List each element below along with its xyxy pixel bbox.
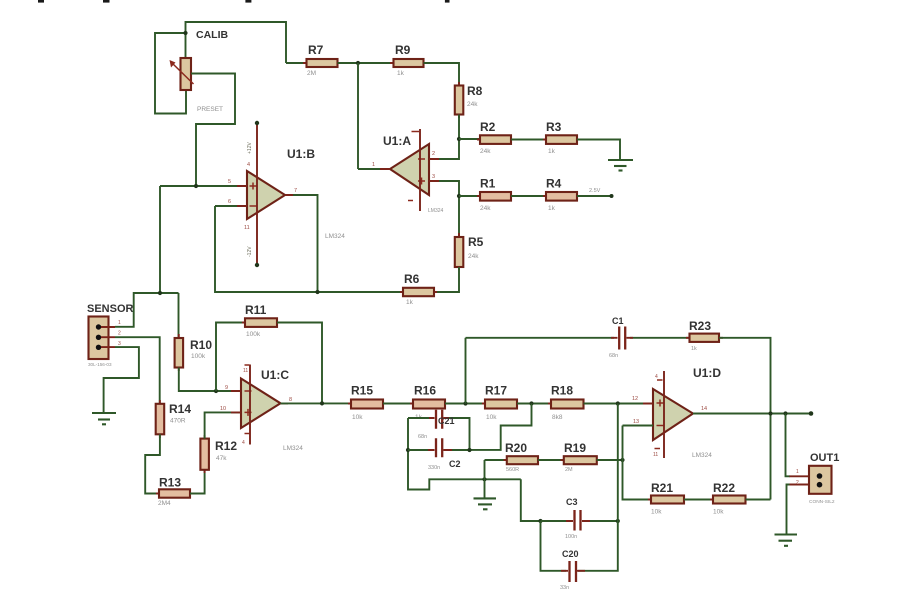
connector OUT1 pin dots bbox=[817, 473, 823, 479]
svg-text:11: 11 bbox=[243, 368, 248, 374]
svg-text:R2: R2 bbox=[480, 120, 496, 134]
svg-text:R11: R11 bbox=[245, 303, 267, 317]
svg-text:10: 10 bbox=[220, 406, 226, 412]
node C2 left junction bbox=[406, 448, 410, 452]
svg-text:1k: 1k bbox=[691, 346, 697, 352]
svg-text:R16: R16 bbox=[414, 384, 436, 398]
op-amp U1:A minus mark bbox=[418, 158, 425, 160]
wire C3/C20 left vertical bbox=[541, 521, 567, 571]
svg-text:6: 6 bbox=[228, 199, 231, 205]
wire R11 feedback loop left bbox=[216, 323, 245, 392]
capacitor C21 plates bbox=[436, 410, 442, 429]
svg-text:R3: R3 bbox=[546, 120, 562, 134]
capacitor C1 leads bbox=[611, 337, 633, 339]
resistor R2 bbox=[477, 139, 514, 141]
node R7/R9 junction bbox=[356, 61, 360, 65]
wire junction up to C1 line bbox=[465, 338, 467, 404]
wire sensor pin3 to ground bbox=[104, 347, 139, 413]
op-amp U1:C V+ power pin bbox=[249, 365, 251, 445]
clipped text artifact top edge 3 bbox=[245, 0, 251, 3]
svg-text:2: 2 bbox=[118, 331, 121, 337]
svg-text:+12V: +12V bbox=[247, 142, 253, 154]
wire U1:A pin3 to R1/R5 bbox=[429, 181, 459, 237]
svg-text:33n: 33n bbox=[560, 585, 569, 591]
svg-text:1: 1 bbox=[118, 320, 121, 326]
svg-text:CONN-SIL2: CONN-SIL2 bbox=[809, 499, 835, 505]
resistor R14 bbox=[159, 400, 161, 438]
node sensor net junction bbox=[158, 291, 162, 295]
svg-text:-12V: -12V bbox=[247, 246, 253, 257]
connector SENSOR pin stubs bbox=[101, 327, 115, 347]
svg-text:68n: 68n bbox=[609, 353, 618, 359]
capacitor C1 plates bbox=[619, 327, 625, 350]
wire down to R10 bbox=[178, 293, 180, 338]
svg-text:U1:C: U1:C bbox=[261, 368, 289, 382]
op-amp U1:B bbox=[247, 171, 285, 219]
svg-text:1k: 1k bbox=[548, 205, 556, 212]
node R2 branch junction bbox=[457, 137, 461, 141]
svg-text:PRESET: PRESET bbox=[197, 106, 223, 113]
svg-text:9: 9 bbox=[225, 385, 228, 391]
wire R19 right to R21 net bbox=[597, 459, 623, 461]
wire U1:B feedback output loop bbox=[285, 195, 318, 292]
wire U1:B pin6 input bbox=[215, 205, 247, 207]
op-amp U1:B plus mark bbox=[250, 183, 257, 190]
svg-text:C1: C1 bbox=[612, 316, 624, 326]
ground sensor bbox=[92, 412, 116, 414]
svg-text:4: 4 bbox=[655, 374, 658, 380]
svg-text:R15: R15 bbox=[351, 384, 373, 398]
node C2 right junction bbox=[467, 448, 471, 452]
resistor R15 bbox=[348, 403, 387, 405]
wire C2 box left side bbox=[408, 418, 521, 490]
svg-text:560R: 560R bbox=[506, 467, 519, 473]
svg-text:R18: R18 bbox=[551, 384, 573, 398]
op-amp U1:D plus mark bbox=[657, 400, 664, 407]
wire R2 to R3 bbox=[511, 139, 546, 141]
node output/feedback junction bbox=[768, 411, 772, 415]
wire R8 down to U1:A pin2 bbox=[429, 115, 459, 160]
svg-text:8: 8 bbox=[289, 397, 292, 403]
svg-text:47k: 47k bbox=[216, 455, 227, 462]
wire pot wiper to U1:B pin5 bbox=[191, 74, 235, 187]
svg-text:R7: R7 bbox=[308, 43, 324, 57]
wire junction to R1 bbox=[459, 195, 480, 197]
svg-text:24k: 24k bbox=[480, 148, 491, 155]
svg-text:R12: R12 bbox=[215, 439, 237, 453]
wire U1:A output to R7/R9 junction bbox=[358, 168, 380, 170]
resistor R17 bbox=[482, 403, 520, 405]
op-amp U1:B minus mark bbox=[250, 205, 257, 207]
capacitor C2 leads bbox=[428, 449, 452, 451]
node C3 right junction bbox=[616, 519, 620, 523]
svg-text:R6: R6 bbox=[404, 272, 420, 286]
op-amp U1:C minus mark bbox=[245, 390, 252, 392]
wire U1:D output bbox=[693, 413, 811, 415]
svg-text:U1:A: U1:A bbox=[383, 134, 411, 148]
svg-text:3: 3 bbox=[118, 341, 121, 347]
svg-text:7: 7 bbox=[294, 188, 297, 194]
wire R21 to R22 bbox=[684, 499, 713, 501]
wire R22 to output vertical bbox=[746, 499, 771, 501]
resistor R6 bbox=[400, 291, 437, 293]
wire R14 to R13 bbox=[145, 434, 160, 493]
op-amp U1:A V+ power pin bbox=[419, 129, 421, 211]
op-amp U1:C pin stubs bbox=[231, 391, 288, 412]
svg-text:330n: 330n bbox=[428, 465, 440, 471]
op-amp U1:D V+ power pin bbox=[663, 371, 665, 458]
svg-text:SENSOR: SENSOR bbox=[87, 303, 134, 315]
wire junction to R2 bbox=[459, 138, 480, 140]
svg-text:U1:B: U1:B bbox=[287, 147, 315, 161]
op-amp U1:D minus mark bbox=[657, 425, 664, 427]
resistor R19 bbox=[561, 459, 601, 461]
connector SENSOR pin dots bbox=[96, 324, 101, 329]
op-amp U1:A V- power pin bbox=[408, 200, 413, 202]
svg-text:LM324: LM324 bbox=[283, 445, 303, 452]
svg-text:2M: 2M bbox=[307, 70, 316, 77]
wire R1 to R4 bbox=[511, 195, 546, 197]
svg-text:2: 2 bbox=[796, 480, 799, 486]
wire R20 to R19 bbox=[538, 459, 564, 461]
wire R9 to R8 bbox=[424, 63, 460, 86]
capacitor C20 plates bbox=[570, 561, 577, 582]
svg-text:R14: R14 bbox=[169, 402, 191, 416]
svg-text:12: 12 bbox=[632, 396, 638, 402]
svg-text:R23: R23 bbox=[689, 319, 711, 333]
svg-text:R9: R9 bbox=[395, 43, 411, 57]
resistor R12 bbox=[204, 435, 206, 473]
resistor R4 bbox=[543, 195, 580, 197]
wire R13 to R12 bbox=[190, 470, 205, 494]
potentiometer RV1 CALIB body bbox=[181, 58, 192, 90]
resistor R7 bbox=[303, 62, 341, 64]
svg-text:2M: 2M bbox=[565, 467, 573, 473]
svg-text:OUT1: OUT1 bbox=[810, 452, 839, 464]
wire ground line down to C3 line bbox=[521, 479, 541, 521]
svg-text:10k: 10k bbox=[713, 509, 724, 516]
node R17/R18 junction bbox=[529, 401, 533, 405]
wire R23 to output vertical bbox=[719, 338, 771, 500]
svg-text:100k: 100k bbox=[246, 331, 261, 338]
op-amp U1:A (mirrored) bbox=[390, 144, 429, 195]
svg-text:R5: R5 bbox=[468, 235, 484, 249]
resistor R18 bbox=[548, 403, 587, 405]
wire R5 down to R6 bbox=[434, 267, 459, 292]
node C3 left junction bbox=[538, 519, 542, 523]
op-amp U1:D bbox=[653, 389, 693, 440]
clipped text artifact top edge 4 bbox=[445, 0, 450, 3]
svg-text:100k: 100k bbox=[191, 353, 206, 360]
node output feedback junction bbox=[320, 401, 324, 405]
wire R3 to ground bbox=[577, 140, 620, 161]
svg-text:24k: 24k bbox=[480, 205, 491, 212]
node ground junction bbox=[482, 477, 486, 481]
capacitor C2 line bbox=[408, 449, 470, 451]
wire R7 to R9 bbox=[338, 62, 394, 64]
resistor R9 bbox=[390, 62, 427, 64]
capacitor C21 box top line bbox=[408, 418, 470, 450]
resistor R11 bbox=[242, 322, 280, 324]
svg-text:R10: R10 bbox=[190, 338, 212, 352]
potentiometer wiper arrow bbox=[172, 63, 194, 85]
wire R12 to U1:C pin10 bbox=[205, 412, 241, 438]
op-amp U1:C V- power pin bbox=[245, 433, 250, 435]
node pot top junction bbox=[183, 31, 187, 35]
wire C20 line right bbox=[578, 404, 618, 571]
node U1:B output feedback junction bbox=[315, 290, 319, 294]
svg-text:10k: 10k bbox=[651, 509, 662, 516]
svg-text:R21: R21 bbox=[651, 481, 673, 495]
capacitor C2 plates bbox=[436, 438, 442, 457]
node R1 branch junction bbox=[457, 194, 461, 198]
resistor R21 bbox=[648, 499, 687, 501]
svg-text:C2: C2 bbox=[449, 459, 461, 469]
ground middle bbox=[474, 497, 497, 499]
op-amp U1:B input pin stubs bbox=[237, 186, 293, 206]
node C1 net junction bbox=[463, 401, 467, 405]
wire pot left loop bbox=[155, 33, 186, 114]
svg-text:14: 14 bbox=[701, 406, 707, 412]
op-amp U1:A plus mark bbox=[418, 178, 425, 185]
svg-text:4: 4 bbox=[247, 162, 250, 168]
wire U1:C output to R15 bbox=[281, 402, 352, 404]
wire R4 to 2.5V terminal bbox=[577, 195, 612, 197]
capacitor C20 leads bbox=[561, 570, 585, 572]
node R19/R21 junction bbox=[620, 458, 624, 462]
clipped text artifact top edge 1 bbox=[38, 0, 44, 3]
resistor R5 bbox=[458, 233, 460, 270]
wire R15 to R16 bbox=[383, 403, 413, 405]
op-amp U1:D pin stubs bbox=[643, 404, 701, 426]
svg-text:13: 13 bbox=[633, 419, 639, 425]
resistor R16 bbox=[410, 403, 448, 405]
svg-text:1k: 1k bbox=[406, 299, 414, 306]
op-amp U1:B V+ power pin 4 bbox=[256, 123, 258, 265]
resistor R8 bbox=[458, 82, 460, 118]
svg-text:10k: 10k bbox=[352, 414, 363, 421]
wire sensor pin1 up to net bbox=[115, 293, 179, 327]
ground after R3 bbox=[608, 159, 633, 161]
wire sensor pin2 to R14 bbox=[115, 337, 160, 404]
wire R16 to R17 bbox=[445, 403, 485, 405]
svg-text:5: 5 bbox=[228, 179, 231, 185]
wire U1:B pin5 input bbox=[160, 185, 247, 187]
svg-text:R4: R4 bbox=[546, 177, 562, 191]
svg-text:R19: R19 bbox=[564, 441, 586, 455]
resistor R20 bbox=[504, 459, 542, 461]
op-amp U1:C plus mark bbox=[245, 409, 252, 416]
svg-text:R20: R20 bbox=[505, 441, 527, 455]
node C3 net junction on pin12 line bbox=[616, 401, 620, 405]
svg-text:LM324: LM324 bbox=[428, 208, 444, 214]
svg-text:2M4: 2M4 bbox=[158, 500, 171, 507]
svg-text:LM324: LM324 bbox=[325, 233, 345, 240]
svg-text:1: 1 bbox=[796, 469, 799, 475]
resistor R13 bbox=[156, 493, 193, 495]
node OUT1 branch junction bbox=[783, 411, 787, 415]
wire R20 left to ground bbox=[484, 460, 486, 498]
resistor R1 bbox=[477, 195, 514, 197]
svg-text:24k: 24k bbox=[468, 253, 479, 260]
svg-text:11: 11 bbox=[244, 225, 250, 231]
svg-text:3: 3 bbox=[432, 174, 435, 180]
wire pin5 line down to sensor net bbox=[159, 186, 161, 293]
wire R20 left lead bbox=[485, 459, 507, 461]
svg-text:C3: C3 bbox=[566, 497, 578, 507]
op-amp U1:A pin stubs bbox=[380, 159, 439, 181]
wire U1:B bottom net to R6 bbox=[215, 206, 403, 292]
wire U1:D pin13 to R21 bbox=[623, 425, 654, 427]
capacitor C21 leads bbox=[429, 417, 449, 419]
capacitor C3 leads bbox=[566, 520, 590, 522]
wire R10 down to U1:C pin9 bbox=[179, 368, 241, 392]
svg-text:CALIB: CALIB bbox=[196, 29, 228, 41]
ground OUT1 bbox=[775, 533, 798, 535]
svg-text:2.5V: 2.5V bbox=[589, 188, 601, 194]
svg-text:LM324: LM324 bbox=[692, 452, 712, 459]
svg-text:470R: 470R bbox=[170, 418, 186, 425]
connector J1 SENSOR body bbox=[89, 317, 109, 360]
wire R11 to output bbox=[277, 323, 322, 404]
svg-text:8k8: 8k8 bbox=[552, 414, 563, 421]
resistor R3 bbox=[543, 139, 580, 141]
svg-text:68n: 68n bbox=[418, 434, 427, 440]
wire staircase R17/R18 junction down to C2 bbox=[470, 404, 532, 450]
op-amp U1:B V- power pin 11 bbox=[255, 263, 259, 267]
resistor R22 bbox=[710, 499, 749, 501]
op-amp U1:D V- power pin bbox=[655, 448, 661, 450]
wire R17 to R18 bbox=[517, 403, 551, 405]
svg-text:2: 2 bbox=[432, 151, 435, 157]
node wiper junction bbox=[194, 184, 198, 188]
wire pot top to R7 bbox=[186, 22, 287, 63]
node R11 feedback junction bbox=[214, 389, 218, 393]
capacitor C3 plates bbox=[575, 510, 581, 531]
node 2.5V terminal bbox=[610, 194, 614, 198]
svg-text:1k: 1k bbox=[548, 148, 556, 155]
svg-text:10k: 10k bbox=[486, 414, 497, 421]
wire C1/R23 feedback line bbox=[466, 337, 690, 339]
connector OUT1 body bbox=[809, 466, 832, 494]
svg-text:R17: R17 bbox=[485, 384, 507, 398]
connector OUT1 pin stubs bbox=[790, 476, 810, 484]
resistor R23 bbox=[686, 337, 723, 339]
svg-text:R13: R13 bbox=[159, 476, 181, 490]
svg-text:R1: R1 bbox=[480, 177, 496, 191]
wire OUT1 pin2 to ground bbox=[787, 485, 791, 534]
op-amp U1:C bbox=[241, 379, 281, 429]
svg-text:R22: R22 bbox=[713, 481, 735, 495]
svg-text:C21: C21 bbox=[438, 416, 455, 426]
node output terminal bbox=[809, 411, 814, 416]
svg-text:C20: C20 bbox=[562, 549, 579, 559]
clipped text artifact top edge 2 bbox=[103, 0, 110, 3]
svg-text:4: 4 bbox=[242, 440, 245, 446]
svg-text:30L-156-03: 30L-156-03 bbox=[88, 362, 112, 367]
svg-text:11: 11 bbox=[653, 452, 658, 458]
svg-text:100n: 100n bbox=[565, 534, 577, 540]
svg-text:24k: 24k bbox=[467, 101, 478, 108]
svg-text:U1:D: U1:D bbox=[693, 366, 721, 380]
wire R18 to U1:D pin12 bbox=[584, 403, 654, 405]
svg-text:1k: 1k bbox=[397, 70, 405, 77]
wire R7 left bbox=[286, 62, 307, 64]
svg-text:R8: R8 bbox=[467, 84, 483, 98]
resistor R10 bbox=[178, 334, 180, 371]
wire output to OUT1 pin1 bbox=[786, 414, 791, 477]
svg-text:1: 1 bbox=[372, 162, 375, 168]
wire C3 line bbox=[541, 520, 618, 522]
